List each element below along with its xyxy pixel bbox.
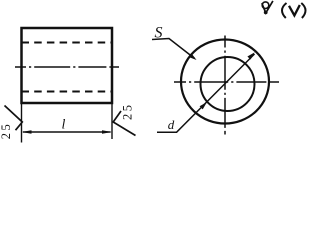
roughness mark right (113, 111, 135, 136)
svg-text:S: S (155, 24, 163, 41)
svg-text:25: 25 (120, 103, 134, 121)
dimension arrow left (22, 130, 32, 133)
dimension line l (23, 131, 111, 133)
open parenthesis (282, 3, 287, 18)
vertical center line (end view) (224, 36, 226, 135)
check mark in parentheses (289, 5, 300, 15)
roughness symbol vertex dot (264, 11, 268, 15)
arrow S (189, 53, 197, 60)
svg-text:l: l (62, 118, 66, 133)
extension line right (111, 104, 113, 139)
axis center line (front view) (15, 66, 119, 68)
inner circle (end view) (201, 57, 255, 111)
extension line left (21, 104, 23, 143)
diagonal dimension line d (177, 54, 255, 132)
horizontal center line (end view) (174, 81, 279, 83)
leader tail d (157, 131, 177, 133)
svg-text:d: d (168, 117, 175, 132)
dimension arrow right (102, 130, 112, 133)
hidden line upper (22, 42, 113, 44)
cylinder body outline (front view) (22, 28, 113, 103)
outer circle (end view) (181, 40, 269, 124)
roughness mark left (5, 106, 23, 131)
close parenthesis (301, 3, 305, 18)
roughness symbol circle (262, 2, 269, 9)
leader line S (152, 39, 195, 59)
arrow on outer circle (diagonal end) (247, 52, 254, 59)
roughness symbol top right (no material removal) (262, 1, 273, 13)
hidden line lower (22, 91, 113, 93)
arrow on inner circle (d) (200, 102, 207, 109)
svg-text:25: 25 (0, 122, 13, 140)
